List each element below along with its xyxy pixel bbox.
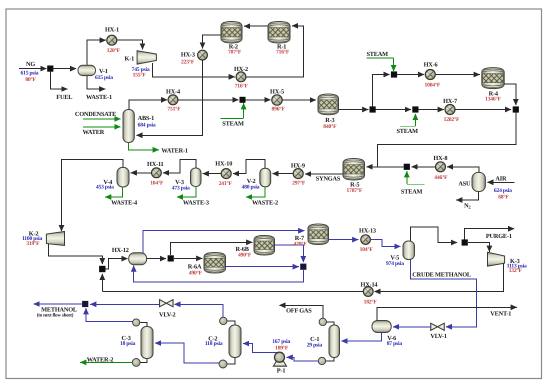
wire C-1 bottoms to P-1 (287, 357, 319, 361)
svg-text:1346°F: 1346°F (485, 97, 501, 103)
svg-text:80°F: 80°F (25, 77, 36, 83)
compressor K-1 (137, 51, 156, 64)
svg-text:68°F: 68°F (498, 195, 509, 201)
wire steam mix 4 to R-5 (367, 166, 404, 168)
heat exchanger HX-14 (363, 287, 373, 297)
vessel V-2 (260, 168, 271, 187)
wire V-5 top to purge node J9 (410, 227, 457, 243)
wire K-1 outlet to HX-2 (153, 63, 235, 77)
wire R-6B outlet to node J8 (275, 245, 304, 262)
svg-text:WASTE-3: WASTE-3 (183, 200, 209, 207)
svg-text:104°F: 104°F (150, 181, 164, 187)
svg-text:429°F: 429°F (294, 242, 308, 248)
stream WASTE-3 (177, 187, 196, 198)
wire J1 to steam mix 3 (376, 109, 411, 111)
vessel V-6 (372, 321, 391, 333)
svg-text:132°F: 132°F (509, 268, 523, 274)
svg-text:319°F: 319°F (26, 241, 40, 247)
svg-text:490°F: 490°F (189, 270, 203, 276)
wire R-3 to node J1 (339, 109, 369, 111)
svg-text:189°F: 189°F (275, 346, 289, 352)
svg-text:ABS-1: ABS-1 (138, 115, 155, 122)
wire R-4 to node J3 (504, 84, 516, 105)
svg-text:29 psia: 29 psia (307, 342, 323, 348)
wire J9 to K-3 (468, 243, 490, 252)
stream METHANOL product (34, 303, 83, 305)
heat exchanger HX-4 (168, 95, 178, 105)
svg-text:684 psia: 684 psia (138, 123, 156, 129)
wire HX-3 to ABS-1 (136, 60, 202, 135)
svg-text:WASTE-2: WASTE-2 (252, 200, 278, 207)
wire HX-14 to recycle mix J6 (102, 291, 363, 293)
compressor K-3 (488, 252, 505, 266)
wire HX-11 to V-4 (131, 172, 152, 174)
wire R-6A outlet to node J8 (226, 266, 299, 268)
compressor K-2 (46, 232, 64, 246)
wire HX-6 to R-4 (435, 74, 480, 76)
wire R-2 to HX-3 (203, 35, 222, 49)
svg-text:118 psia: 118 psia (205, 341, 223, 347)
stream OFF GAS (279, 305, 323, 318)
svg-text:SYNGAS: SYNGAS (316, 176, 341, 183)
reactor R-6B (254, 236, 275, 256)
svg-text:R-6A: R-6A (188, 263, 202, 270)
svg-text:HX-12: HX-12 (112, 247, 129, 254)
node steam mix 3 (412, 106, 418, 112)
condenser drum C-1 (326, 322, 334, 325)
vessel V-4 (117, 167, 129, 187)
node J3 mix (513, 106, 519, 112)
svg-text:HX-3: HX-3 (181, 51, 195, 58)
svg-text:VENT-1: VENT-1 (490, 311, 511, 318)
wire HX-8 to steam mix 4 (412, 166, 436, 168)
heat exchanger HX-1 (107, 35, 117, 45)
svg-text:STEAM: STEAM (401, 188, 423, 195)
stream WASTE-4 (105, 187, 122, 197)
heat exchanger HX-9 (293, 169, 303, 179)
wire VLV-1 to V-6 (393, 326, 431, 328)
svg-text:1004°F: 1004°F (425, 83, 441, 89)
svg-text:707°F: 707°F (228, 50, 242, 56)
condenser drum C-2 (227, 321, 235, 325)
vessel V-3 (191, 168, 202, 187)
heat exchanger HX-7 (445, 105, 455, 115)
wire C-3 overhead to methanol node (86, 308, 133, 321)
svg-text:VLV-1: VLV-1 (430, 333, 447, 340)
svg-text:155°F: 155°F (133, 72, 147, 78)
wire ABS-1 to HX-4 (129, 100, 167, 110)
svg-text:896°F: 896°F (272, 106, 286, 112)
svg-text:HX-11: HX-11 (147, 161, 164, 168)
wire HX-10 to V-3 (203, 173, 222, 175)
node J8 mix reactors outlet (300, 264, 306, 270)
heat exchanger HX-11 (152, 168, 162, 178)
wire V-2 top to HX-10 (233, 160, 265, 174)
svg-text:453 psia: 453 psia (96, 184, 114, 190)
wire HX-4 to steam tee (178, 99, 239, 101)
wire R-1 to R-2 (244, 25, 268, 27)
node steam mix 2 (391, 71, 397, 77)
heat exchanger HX-8 (436, 162, 446, 172)
svg-text:HX-4: HX-4 (166, 89, 181, 96)
column C-1 (329, 325, 340, 358)
stream STEAM into mix 1 (243, 103, 245, 118)
svg-text:PURGE-1: PURGE-1 (486, 233, 512, 240)
wire HX-2 to R-1 (246, 26, 304, 77)
svg-text:WASTE-4: WASTE-4 (111, 200, 138, 207)
svg-text:446°F: 446°F (434, 175, 448, 181)
wire K-3 outlet recycle line to HX-14 (374, 263, 503, 291)
wire K-2 outlet to recycle mix (49, 244, 103, 264)
svg-text:STEAM: STEAM (222, 120, 244, 127)
svg-text:480 psia: 480 psia (242, 185, 260, 191)
svg-text:490°F: 490°F (238, 253, 252, 259)
wire P-1 to C-2 (243, 344, 277, 353)
svg-text:ASU: ASU (458, 180, 471, 187)
heat exchanger HX-2 (236, 72, 246, 82)
reboiler drum C-3 (140, 359, 147, 363)
svg-text:K-1: K-1 (125, 56, 135, 63)
reactor R-3 (318, 94, 339, 115)
svg-text:615 psia: 615 psia (21, 71, 39, 77)
wire HX-7 to node J3 (455, 109, 511, 111)
node J9 purge split (462, 239, 468, 245)
svg-text:716°F: 716°F (235, 83, 249, 89)
wire C-2 overhead to VLV-2 (174, 304, 223, 317)
svg-text:STEAM: STEAM (367, 51, 389, 58)
wire J8 to HX-12 shell inlet (134, 266, 304, 282)
wire V-3 top to HX-11 (163, 160, 196, 173)
pump P-1 (273, 361, 286, 366)
svg-text:WASTE-1: WASTE-1 (86, 94, 112, 101)
node J-NG tee (47, 66, 53, 72)
stream N2 from ASU (456, 192, 479, 201)
column C-2 (229, 325, 241, 358)
svg-text:241°F: 241°F (219, 181, 233, 187)
wire VLV-2 to methanol node (90, 303, 159, 305)
svg-text:WATER-2: WATER-2 (87, 356, 114, 363)
reboiler drum C-1 (326, 358, 335, 362)
column C-3 (141, 327, 153, 359)
svg-text:HX-14: HX-14 (361, 282, 379, 289)
svg-text:HX-1: HX-1 (105, 27, 119, 34)
heat exchanger HX-3 (198, 50, 208, 60)
stream FUEL (50, 71, 67, 89)
condenser drum C-3 (140, 323, 147, 327)
wire V-4 top to K-2 (62, 159, 124, 231)
heat exchanger HX-13 (361, 235, 371, 245)
wire mix 3 to HX-7 (419, 109, 444, 111)
svg-text:VLV-2: VLV-2 (159, 311, 176, 318)
reactor R-5 (343, 159, 365, 181)
svg-text:840°F: 840°F (323, 124, 337, 130)
svg-text:87 psia: 87 psia (387, 341, 403, 347)
svg-text:N2: N2 (464, 203, 470, 210)
node steam mix 1 (240, 97, 246, 103)
valve VLV-2 (160, 300, 174, 307)
reboiler drum C-2 (227, 358, 235, 365)
wire HX-1 to K-1 (117, 40, 143, 49)
stream WATER (83, 126, 121, 128)
node J7 split to reactors (168, 255, 174, 261)
svg-text:223°F: 223°F (181, 59, 195, 65)
stream STEAM into mix 3 (414, 114, 416, 126)
heat exchanger HX-12 (129, 253, 147, 265)
reactor R-7 (308, 224, 329, 245)
wire R-7 to HX-13 (329, 239, 359, 241)
svg-text:P-1: P-1 (277, 368, 286, 375)
vessel V-5 (403, 241, 415, 260)
wire J7 to R-6A (174, 257, 202, 259)
node steam mix 4 (404, 164, 410, 170)
svg-text:615 psia: 615 psia (95, 75, 113, 81)
wire J1 up to steam mix 2 (373, 75, 390, 107)
node recycle mix J6 (99, 266, 105, 272)
svg-text:WATER-1: WATER-1 (161, 148, 188, 155)
svg-text:HX-9: HX-9 (291, 162, 305, 169)
wire HX-12 shell outlet to R-7 (143, 231, 304, 253)
reactor R-4 (482, 68, 504, 89)
svg-text:1787°F: 1787°F (347, 188, 363, 194)
air separation unit ASU (472, 172, 485, 191)
wire HX-5 to R-3 (282, 99, 316, 101)
svg-text:HX-5: HX-5 (270, 88, 284, 95)
stream CRUDE METHANOL from V-5 to VLV-1 (411, 260, 477, 327)
reactor R-2 (221, 22, 242, 44)
wire J7 to R-6B (171, 242, 253, 255)
svg-text:HX-8: HX-8 (433, 155, 447, 162)
svg-text:18 psia: 18 psia (120, 341, 136, 347)
wire J3 down to R-5 (377, 113, 516, 167)
svg-text:473 psia: 473 psia (172, 185, 190, 191)
stream WATER-2 (80, 361, 132, 363)
wire C-2 bottoms to C-3 (155, 343, 219, 363)
svg-text:METHANOL: METHANOL (41, 307, 77, 314)
wire ASU oxygen to HX-8 (447, 167, 479, 173)
heat exchanger HX-10 (221, 169, 231, 179)
svg-text:104°F: 104°F (360, 247, 374, 253)
reactor R-1 (268, 22, 290, 44)
svg-text:NG: NG (26, 61, 35, 68)
svg-text:(to next flow sheet): (to next flow sheet) (37, 313, 74, 319)
svg-text:V-1: V-1 (99, 68, 108, 75)
valve VLV-1 (431, 323, 445, 330)
svg-text:716°F: 716°F (276, 50, 290, 56)
svg-text:WATER: WATER (83, 129, 105, 136)
wire HX-9 to V-2 (272, 173, 293, 175)
stream STEAM into mix 4 (406, 171, 408, 184)
svg-text:HX-2: HX-2 (234, 66, 248, 73)
stream WASTE-2 (246, 187, 265, 197)
svg-text:HX-13: HX-13 (359, 227, 376, 234)
wire mix 2 to HX-6 (397, 74, 424, 76)
svg-text:OFF GAS: OFF GAS (286, 308, 312, 315)
stream WASTE-1 (87, 76, 105, 89)
wire steam tee to HX-5 (246, 99, 271, 101)
vessel V-1 (78, 65, 96, 75)
svg-text:CONDENSATE: CONDENSATE (75, 111, 116, 118)
node J1 split after R-3 (370, 106, 376, 112)
svg-text:CRUDE METHANOL: CRUDE METHANOL (412, 271, 471, 278)
svg-text:182°F: 182°F (364, 299, 378, 305)
wire V-1 to HX-1 (87, 40, 106, 65)
heat exchanger HX-5 (272, 95, 282, 105)
heat exchanger HX-6 (425, 70, 435, 80)
node methanol mix J10 (82, 301, 88, 307)
svg-text:FUEL: FUEL (56, 94, 72, 101)
stream WATER-1 (129, 143, 159, 150)
reactor R-6A (204, 253, 226, 274)
svg-text:HX-10: HX-10 (215, 161, 232, 168)
svg-text:297°F: 297°F (292, 181, 306, 187)
svg-text:974 psia: 974 psia (386, 261, 404, 267)
svg-text:HX-6: HX-6 (424, 62, 438, 69)
svg-text:751°F: 751°F (167, 106, 181, 112)
wire J6 to HX-12 (106, 259, 128, 269)
wire HX-12 to node J7 (147, 258, 166, 260)
stream SYNGAS from R-5 to HX-9 (305, 173, 343, 175)
svg-text:AIR: AIR (495, 176, 507, 183)
svg-text:624 psia: 624 psia (494, 188, 512, 194)
wire recycle into J6 (101, 274, 103, 292)
svg-text:HX-7: HX-7 (443, 98, 457, 105)
wire HX-13 to V-5 (370, 240, 400, 247)
stream PURGE-1 (465, 229, 515, 240)
wire V-6 bottom to C-1 (341, 333, 381, 342)
svg-text:1202°F: 1202°F (444, 117, 460, 123)
stream NG feed line (19, 68, 47, 70)
svg-text:120°F: 120°F (107, 48, 121, 54)
svg-text:STEAM: STEAM (397, 128, 419, 135)
absorber ABS-1 (123, 110, 134, 143)
svg-text:167 psia: 167 psia (272, 339, 290, 345)
wire J-NG to V-1 (53, 68, 76, 70)
stream VENT-1 from V-6 top (377, 307, 517, 320)
